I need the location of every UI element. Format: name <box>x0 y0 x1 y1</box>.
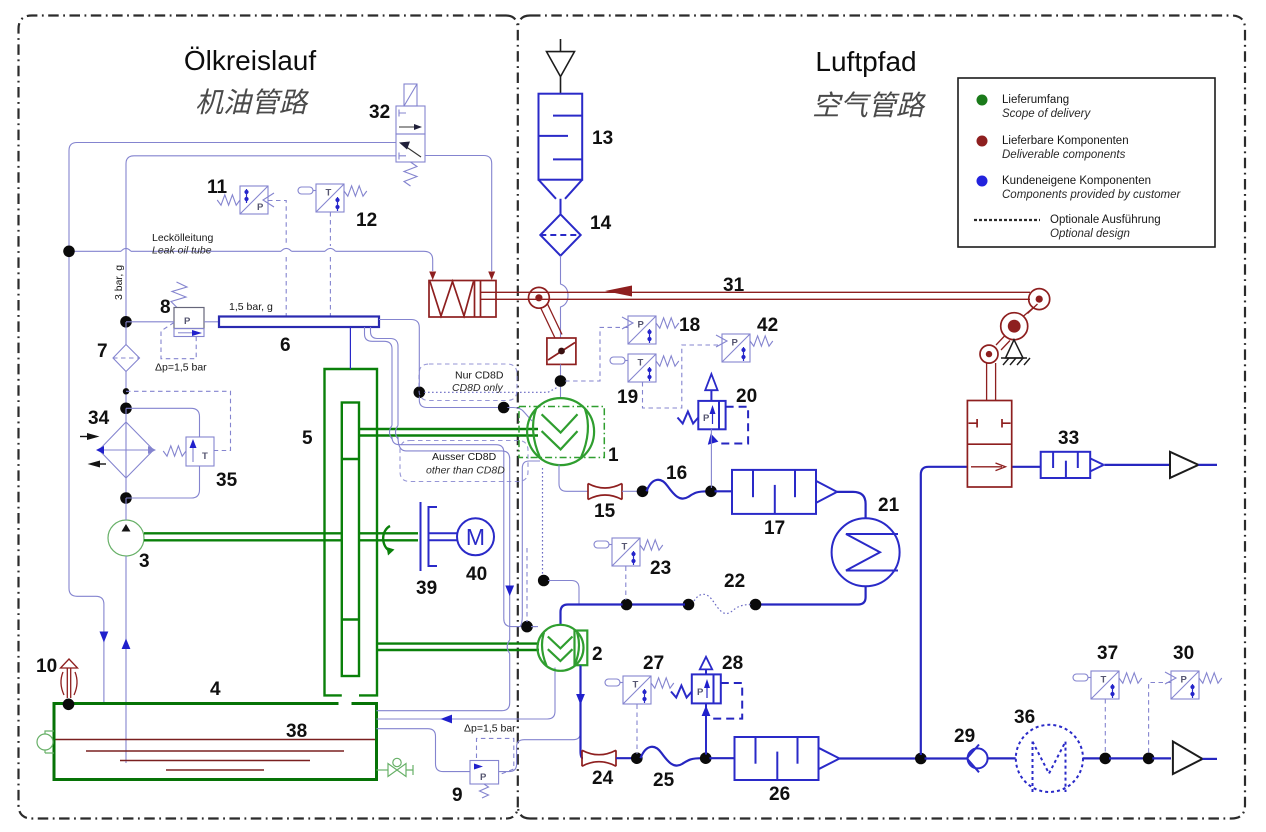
svg-text:Δp=1,5 bar: Δp=1,5 bar <box>155 362 207 374</box>
outlet triangle top <box>1170 452 1198 478</box>
coupling 39 <box>420 502 422 571</box>
svg-text:27: 27 <box>643 653 664 674</box>
sensor 30 <box>1171 671 1199 699</box>
svg-text:17: 17 <box>764 518 785 539</box>
dotted CD8D line <box>424 388 557 393</box>
check valve 29 <box>968 748 988 768</box>
drain valve <box>377 769 389 771</box>
wire left return to tank <box>69 251 104 702</box>
shaft gearbox to compressor1 <box>359 429 538 436</box>
hose 22 dotted <box>692 594 751 613</box>
svg-text:2: 2 <box>592 644 603 665</box>
svg-text:16: 16 <box>666 463 687 484</box>
link to valve <box>987 363 996 401</box>
relief valve 35 bypass <box>126 408 200 498</box>
svg-text:T: T <box>1101 675 1107 686</box>
sensor 27 <box>623 676 651 704</box>
svg-text:Nur CD8D: Nur CD8D <box>455 370 504 382</box>
switch 9 body <box>470 761 499 785</box>
top lever: main pivot <box>1023 304 1038 317</box>
sensor 12 <box>316 184 344 212</box>
svg-text:Deliverable components: Deliverable components <box>1002 149 1126 161</box>
svg-text:28: 28 <box>722 653 743 674</box>
pump suction pipe <box>125 556 127 763</box>
comp1 discharge <box>559 465 588 492</box>
svg-text:Leak oil tube: Leak oil tube <box>152 245 212 257</box>
svg-text:Ölkreislauf: Ölkreislauf <box>184 45 316 76</box>
motor 40 <box>457 518 494 555</box>
wire 3bar riser to valve32 <box>126 156 396 322</box>
filter 34 <box>125 408 127 422</box>
gearbox 4 outer case <box>325 369 378 695</box>
svg-text:other than CD8D: other than CD8D <box>426 465 505 477</box>
breather 10 <box>61 659 78 668</box>
optional dashed boundary Nur CD8D <box>419 364 517 401</box>
svg-text:21: 21 <box>878 495 900 516</box>
pipe 22 run <box>759 586 866 604</box>
relief valve 35 <box>186 437 214 466</box>
svg-text:35: 35 <box>216 470 238 491</box>
silencer 26 <box>735 737 819 780</box>
svg-text:T: T <box>326 188 332 199</box>
svg-text:39: 39 <box>416 578 437 599</box>
svg-text:40: 40 <box>466 564 487 585</box>
top lever: link rod-end circle <box>1029 289 1050 310</box>
sensor 11 signal line <box>268 201 286 317</box>
filter 13 <box>539 94 583 180</box>
frame: Luftpfad region border <box>530 16 1245 819</box>
CD8D dash-dot box comp1 <box>519 407 604 458</box>
svg-text:P: P <box>1181 675 1188 686</box>
wire leak oil line <box>69 251 433 271</box>
wire 14 to throttle <box>561 256 569 338</box>
frame: center divider <box>506 16 530 819</box>
lever lower link <box>996 336 1010 351</box>
svg-text:1,5 bar, g: 1,5 bar, g <box>229 301 273 313</box>
svg-text:P: P <box>638 320 645 331</box>
hose 16 <box>647 480 708 499</box>
comp2 inlet stub <box>531 626 538 628</box>
oil rail 6 <box>219 317 379 328</box>
pivot circle <box>529 287 550 308</box>
shaft gearbox to compressor2 <box>377 644 539 650</box>
muffler 33 <box>1041 452 1091 478</box>
svg-text:P: P <box>480 772 487 783</box>
svg-text:Optional design: Optional design <box>1050 228 1130 240</box>
valve 8 spring <box>171 282 187 308</box>
svg-text:Luftpfad: Luftpfad <box>815 46 916 77</box>
valve 8 body <box>174 308 204 329</box>
valve 8 wires <box>126 321 174 323</box>
sensor 12 signal line <box>329 212 331 316</box>
gearbox 5 gear column <box>342 403 359 677</box>
svg-text:Leckölleitung: Leckölleitung <box>152 232 213 244</box>
venturi 15 <box>588 484 622 500</box>
relief 20 drop <box>710 429 712 488</box>
optional dashed boundary Ausser CD8D <box>400 441 528 482</box>
svg-text:7: 7 <box>97 341 108 362</box>
svg-text:24: 24 <box>592 768 614 789</box>
svg-text:Kundeneigene Komponenten: Kundeneigene Komponenten <box>1002 175 1151 187</box>
svg-text:42: 42 <box>757 315 778 336</box>
svg-text:33: 33 <box>1058 428 1079 449</box>
svg-text:5: 5 <box>302 428 313 449</box>
sensor 42 <box>722 334 750 362</box>
comp2 discharge <box>581 666 584 759</box>
svg-text:P: P <box>697 687 704 698</box>
valve 8 dashed sense <box>161 323 196 359</box>
switch 9 spring <box>480 784 489 798</box>
svg-text:3 bar, g: 3 bar, g <box>113 265 125 300</box>
svg-text:Optionale Ausführung: Optionale Ausführung <box>1050 214 1161 226</box>
svg-text:Components provided by custome: Components provided by customer <box>1002 189 1182 201</box>
wire rail branch b <box>371 327 510 711</box>
air intake <box>547 39 575 94</box>
wire 17 to cooler <box>837 492 866 518</box>
relief 20 <box>710 390 712 401</box>
svg-text:20: 20 <box>736 386 757 407</box>
tank 38 <box>54 704 377 780</box>
rod 31 <box>481 292 1031 299</box>
compressor 1 <box>527 398 594 465</box>
throttle valve <box>547 338 576 364</box>
svg-text:26: 26 <box>769 784 790 805</box>
valve 32 body <box>396 106 425 134</box>
svg-text:22: 22 <box>724 571 745 592</box>
svg-text:29: 29 <box>954 726 975 747</box>
wire throttle to comp1 <box>560 364 562 398</box>
svg-text:T: T <box>202 451 208 462</box>
actuator 32a cylinder <box>429 281 496 318</box>
svg-text:P: P <box>732 338 739 349</box>
svg-text:CD8D only: CD8D only <box>452 382 504 394</box>
svg-text:T: T <box>622 542 628 553</box>
valve 32 solenoid <box>404 84 417 106</box>
svg-text:T: T <box>638 358 644 369</box>
sensor 11 <box>240 186 268 214</box>
wire to valve32 upper <box>69 143 396 252</box>
svg-text:30: 30 <box>1173 643 1194 664</box>
svg-text:36: 36 <box>1014 707 1035 728</box>
svg-text:9: 9 <box>452 785 463 806</box>
venturi 24 <box>582 750 616 766</box>
hose 25 <box>641 747 703 766</box>
dryer 36 <box>1016 725 1083 792</box>
svg-text:31: 31 <box>723 275 745 296</box>
sensor 19 <box>628 354 656 382</box>
svg-text:12: 12 <box>356 210 377 231</box>
svg-text:14: 14 <box>590 213 612 234</box>
wire rail to gearbox <box>349 327 351 369</box>
switch 9 dashed <box>477 738 514 775</box>
cooler 21 <box>832 518 900 586</box>
switch 9 wires <box>377 729 471 772</box>
ground anchor <box>1006 340 1024 358</box>
svg-text:Ausser CD8D: Ausser CD8D <box>432 451 497 463</box>
svg-text:空气管路: 空气管路 <box>812 90 926 121</box>
svg-text:18: 18 <box>679 315 700 336</box>
svg-text:32: 32 <box>369 102 390 123</box>
svg-text:机油管路: 机油管路 <box>195 87 309 118</box>
svg-text:T: T <box>633 680 639 691</box>
svg-text:10: 10 <box>36 656 57 677</box>
svg-text:Scope of delivery: Scope of delivery <box>1002 108 1091 120</box>
relief 28 <box>705 669 707 674</box>
svg-text:6: 6 <box>280 335 291 356</box>
relief 28 drop <box>705 703 707 754</box>
svg-text:34: 34 <box>88 408 110 429</box>
filter 7 <box>125 322 127 345</box>
silencer 17 <box>732 470 816 514</box>
valve 32 spring <box>404 162 417 186</box>
legend box <box>958 78 1215 247</box>
svg-text:Lieferbare Komponenten: Lieferbare Komponenten <box>1002 135 1129 147</box>
oil return from compressor2 <box>377 668 556 720</box>
svg-text:P: P <box>184 316 191 327</box>
delivery riser <box>921 467 1041 755</box>
link to throttle <box>541 304 563 338</box>
svg-text:13: 13 <box>592 128 613 149</box>
pump 3 <box>108 520 144 556</box>
optional dashed drop to comp2 <box>526 548 528 622</box>
shaft gearbox to coupling <box>359 533 418 540</box>
svg-text:Lieferumfang: Lieferumfang <box>1002 94 1069 106</box>
rotation arrow <box>383 526 390 551</box>
comp1 drain wire <box>520 461 540 627</box>
filter 14 <box>540 214 580 255</box>
svg-text:4: 4 <box>210 679 221 700</box>
wire to silencer 17 <box>715 490 733 492</box>
svg-text:M: M <box>466 524 485 550</box>
relief valve 35 dashed <box>126 391 231 450</box>
oil level lines <box>56 740 376 771</box>
wire rail to comp1 top <box>379 320 419 389</box>
relief 20 dashed <box>720 407 748 444</box>
sensor 37 <box>1091 671 1119 699</box>
wire 26 to junction <box>840 757 918 759</box>
svg-text:P: P <box>703 413 710 424</box>
svg-text:37: 37 <box>1097 643 1118 664</box>
frame: Oelkreislauf region border <box>19 16 507 819</box>
svg-text:23: 23 <box>650 558 671 579</box>
wire rail branch a <box>365 327 537 627</box>
svg-text:19: 19 <box>617 387 638 408</box>
svg-text:38: 38 <box>286 721 307 742</box>
level gauge <box>37 734 53 750</box>
outlet triangle low <box>1173 742 1203 775</box>
dotted comp1-comp2 link <box>542 468 544 574</box>
svg-text:Δp=1,5 bar: Δp=1,5 bar <box>464 723 516 735</box>
valve 32 out wire to actuator <box>425 156 492 272</box>
svg-text:1: 1 <box>608 445 619 466</box>
svg-text:11: 11 <box>207 177 228 198</box>
svg-text:8: 8 <box>160 297 171 318</box>
svg-text:15: 15 <box>594 501 616 522</box>
sensor 23 <box>612 538 640 566</box>
discharge valve body <box>967 401 1011 488</box>
svg-text:25: 25 <box>653 770 675 791</box>
sensor 18 <box>628 316 656 344</box>
svg-text:3: 3 <box>139 551 150 572</box>
compressor 2 <box>575 631 588 666</box>
shaft pump to gearbox <box>144 533 342 540</box>
svg-text:P: P <box>257 202 264 213</box>
